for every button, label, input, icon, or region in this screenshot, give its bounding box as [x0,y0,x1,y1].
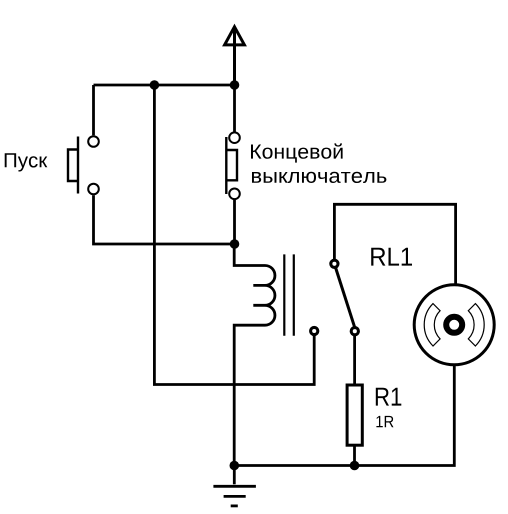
label Концевой выключатель [251,143,343,162]
limit switch Концевой выключатель [226,132,240,199]
label выключатель (line 2) [252,172,386,183]
node junction D [350,461,360,471]
node junction E [230,461,240,471]
node junction C [230,239,240,249]
pushbutton Пуск [68,136,99,194]
relay core lines [284,254,294,335]
motor M1 [414,285,494,365]
ground [213,466,256,506]
wire RL1 top and motor top [334,204,455,284]
wire RL1 to resistor [353,335,356,386]
wire left branch [154,85,314,385]
wire resistor bottom [353,444,356,466]
wire button top lead [92,85,95,135]
wire button bottom lead and bottom horizontal [94,195,235,244]
relay contact RL1 [311,260,359,335]
label RL1 [371,248,412,266]
label Пуск [5,153,48,171]
wire limit switch top lead [233,85,236,132]
wire top horizontal [94,84,235,87]
power symbol VCC [225,27,245,85]
label 1R [376,416,393,427]
node junction B [230,80,240,90]
resistor R1 [347,385,362,445]
node junction A [150,80,160,90]
wire ground rail and motor bottom [234,365,454,466]
wire limit switch bottom lead [233,200,236,244]
label R1 [376,388,401,406]
relay coil [234,244,275,466]
